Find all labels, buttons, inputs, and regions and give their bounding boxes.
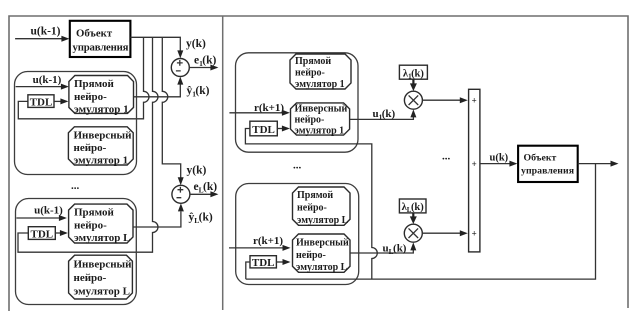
wire TDL right L to emulator (276, 261, 288, 263)
svg-text:эмулятор 1: эмулятор 1 (74, 104, 129, 116)
svg-text:...: ... (71, 180, 80, 192)
inverse neuroemulator L box (right) (293, 234, 351, 272)
summator 2 circle (172, 185, 190, 203)
summing block (vertical rectangle) (469, 89, 480, 252)
direct neuroemulator 1 box (69, 76, 134, 114)
wire direct emulator L output to summator 2 (133, 212, 181, 228)
wire u1(k) from inverse emulator 1 to multiplier (350, 112, 414, 120)
group L rounded container (left) (16, 199, 137, 305)
svg-text:u(k-1): u(k-1) (34, 205, 63, 217)
wire r(k+1) into inverse emulator L (229, 247, 289, 249)
inverse neuroemulator 1 box (right) (291, 103, 350, 135)
plant box (Объект управления, left) (70, 21, 131, 57)
svg-text:нейро-: нейро- (74, 272, 107, 284)
wire TDL L to emulator (55, 232, 66, 234)
divider line between halves (222, 16, 224, 310)
svg-text:Инверсный: Инверсный (296, 238, 349, 249)
svg-text:y(k): y(k) (187, 165, 207, 177)
wire TDL L feedback loop (246, 262, 250, 279)
wire multiplier 1 to summing block (422, 99, 466, 101)
lambda1 box (399, 65, 427, 79)
svg-text:нейро-: нейро- (74, 142, 107, 154)
svg-text:нейро-: нейро- (295, 68, 325, 79)
TDL box L (28, 227, 55, 240)
multiplier L circle (404, 224, 422, 242)
svg-text:нейро-: нейро- (296, 250, 326, 261)
lambdaL box (399, 199, 426, 213)
svg-text:ŷL(k): ŷL(k) (189, 212, 213, 226)
svg-text:нейро-: нейро- (74, 220, 107, 232)
svg-text:Инверсный: Инверсный (74, 129, 133, 141)
svg-text:TDL: TDL (252, 124, 275, 136)
wire branch A: y(k) down to TDL 1 loop (18, 37, 149, 119)
wire direct emulator 1 output to summator 1 (134, 85, 181, 97)
svg-text:+: + (472, 96, 477, 106)
svg-text:λL(k): λL(k) (402, 202, 425, 214)
wire lambdaL into multiplier (412, 213, 414, 217)
svg-text:eL(k): eL(k) (194, 181, 218, 195)
wire uL(k) from inverse emulator L to multiplier (350, 246, 413, 254)
inverse neuroemulator L box (69, 255, 133, 299)
wire multiplier L to summing block (422, 232, 466, 234)
wire TDL1 to emulator (54, 100, 67, 102)
wire r(k+1) into inverse emulator 1 (229, 112, 288, 114)
svg-text:эмулятор L: эмулятор L (74, 286, 130, 298)
plant box (Объект управления, right) (518, 146, 578, 182)
wire u(k-1) into direct emulator L (16, 217, 65, 219)
svg-text:Объект: Объект (524, 153, 557, 164)
svg-text:TDL: TDL (30, 96, 53, 108)
wire y(k) bus from plant to summator 1 (130, 37, 180, 51)
svg-text:u(k): u(k) (490, 153, 509, 164)
direct neuroemulator L box (right) (293, 187, 351, 225)
multiplier 1 circle (404, 91, 422, 109)
svg-text:Прямой: Прямой (74, 78, 114, 90)
svg-text:...: ... (442, 151, 451, 163)
direct neuroemulator 1 box (right) (290, 54, 351, 89)
wire u(k) to plant (right) (480, 163, 516, 165)
svg-text:r(k+1): r(k+1) (253, 235, 283, 247)
wire e1(k) output (189, 67, 216, 69)
svg-text:y(k): y(k) (186, 38, 206, 50)
svg-text:+: + (472, 229, 477, 239)
svg-text:управления: управления (521, 166, 575, 177)
svg-text:u(k-1): u(k-1) (30, 26, 60, 38)
svg-text:Инверсный: Инверсный (295, 104, 348, 115)
svg-text:e1(k): e1(k) (194, 55, 216, 69)
svg-text:λ1(k): λ1(k) (403, 69, 425, 81)
svg-text:эмулятор L: эмулятор L (296, 262, 348, 273)
svg-text:Инверсный: Инверсный (74, 259, 133, 271)
TDL box 1 (28, 95, 54, 108)
svg-text:Объект: Объект (76, 28, 113, 40)
svg-text:TDL: TDL (30, 228, 53, 240)
TDL box right 1 (250, 121, 277, 136)
svg-text:uL(k): uL(k) (383, 243, 407, 257)
svg-text:эмулятор L: эмулятор L (74, 232, 130, 244)
wire branch B: y(k) down to TDL L loop (18, 37, 158, 252)
wire TDL 1 feedback loop (245, 129, 377, 280)
inverse neuroemulator 1 box (68, 127, 133, 165)
wire lambda1 into multiplier (412, 79, 414, 84)
wire u(k-1) into plant (15, 38, 67, 40)
wire plant output (578, 163, 617, 165)
group L rounded container (right) (236, 184, 359, 285)
svg-text:...: ... (293, 160, 302, 172)
TDL box right L (250, 256, 276, 268)
wire u(k-1) into direct emulator 1 (16, 86, 67, 88)
svg-text:Прямой: Прямой (297, 190, 333, 201)
direct neuroemulator L box (69, 204, 133, 243)
svg-text:ŷ1(k): ŷ1(k) (187, 85, 210, 99)
svg-text:эмулятор 1: эмулятор 1 (295, 79, 345, 90)
svg-text:нейро-: нейро- (297, 203, 327, 214)
svg-text:Прямой: Прямой (74, 207, 114, 219)
group 1 rounded container (right) (236, 53, 359, 152)
svg-text:эмулятор 1: эмулятор 1 (74, 155, 129, 167)
svg-text:управления: управления (73, 42, 129, 54)
svg-text:эмулятор L: эмулятор L (297, 215, 349, 226)
summator 1 circle (171, 59, 189, 77)
wire eL(k) output (190, 193, 217, 195)
svg-text:нейро-: нейро- (295, 115, 325, 126)
svg-text:Прямой: Прямой (295, 56, 331, 67)
wire TDL right 1 to emulator (277, 128, 288, 130)
wire feedback from plant output down and left to TDL loops (246, 164, 596, 280)
svg-text:u1(k): u1(k) (373, 108, 396, 122)
wire branch C: y(k) to summator 2 (162, 37, 180, 177)
svg-text:u(k-1): u(k-1) (33, 74, 62, 86)
svg-text:эмулятор 1: эмулятор 1 (295, 126, 345, 137)
svg-text:нейро-: нейро- (74, 91, 107, 103)
svg-text:TDL: TDL (252, 257, 275, 269)
svg-text:+: + (472, 159, 477, 169)
group 1 rounded container (left) (15, 72, 137, 175)
